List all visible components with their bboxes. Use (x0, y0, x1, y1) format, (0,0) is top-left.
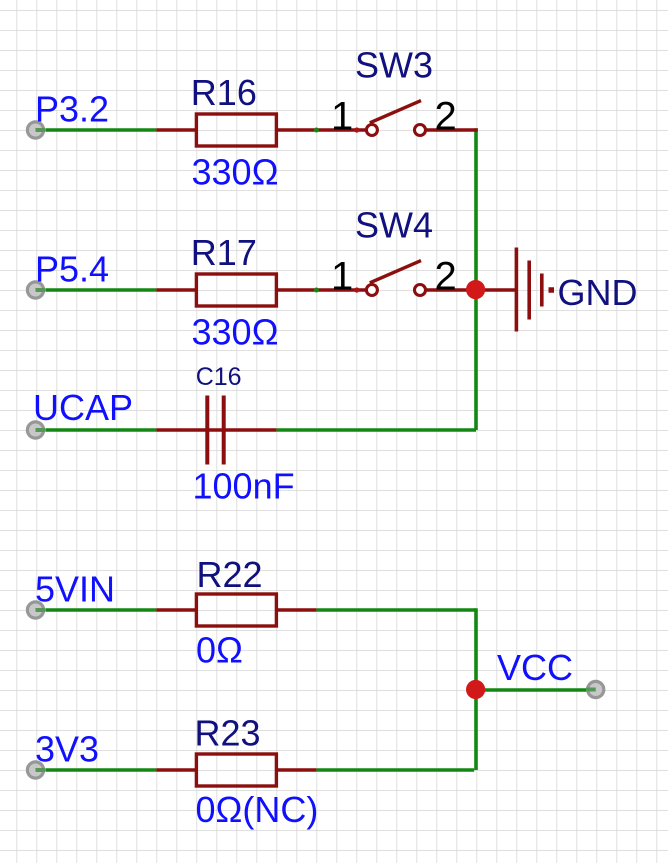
svg-text:3V3: 3V3 (35, 729, 99, 770)
svg-text:1: 1 (331, 95, 353, 139)
svg-text:100nF: 100nF (193, 466, 295, 507)
svg-text:2: 2 (435, 95, 457, 139)
svg-text:330Ω: 330Ω (192, 312, 279, 353)
svg-text:R22: R22 (197, 554, 263, 595)
svg-text:P5.4: P5.4 (35, 248, 109, 289)
svg-text:SW3: SW3 (355, 45, 433, 86)
svg-text:R23: R23 (195, 713, 261, 754)
svg-text:330Ω: 330Ω (192, 152, 279, 193)
svg-text:0Ω(NC): 0Ω(NC) (196, 789, 319, 830)
svg-text:2: 2 (435, 255, 457, 299)
svg-text:UCAP: UCAP (33, 387, 133, 428)
svg-text:0Ω: 0Ω (196, 629, 243, 670)
svg-text:VCC: VCC (497, 647, 573, 688)
svg-text:GND: GND (558, 272, 638, 313)
svg-text:R16: R16 (191, 72, 257, 113)
svg-text:P3.2: P3.2 (35, 88, 109, 129)
svg-text:1: 1 (331, 255, 353, 299)
svg-text:R17: R17 (191, 232, 257, 273)
svg-text:C16: C16 (196, 363, 242, 391)
svg-text:5VIN: 5VIN (35, 569, 115, 610)
svg-text:SW4: SW4 (355, 205, 433, 246)
